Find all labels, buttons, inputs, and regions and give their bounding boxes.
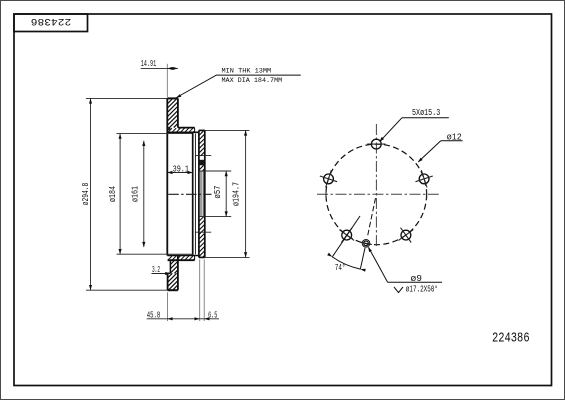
label d12 arrow [418, 158, 423, 163]
svg-text:224386: 224386 [31, 15, 71, 27]
label d9 underline [388, 281, 442, 283]
web strip hatch (top) [168, 128, 172, 132]
bore dia57 top edge [199, 170, 231, 172]
leader min-max arrow [176, 94, 181, 98]
angle 74 arc [332, 257, 360, 269]
dim ext right [203, 259, 205, 321]
bolt circle quadrant tick right [426, 189, 428, 199]
dim dia294.8 line [90, 98, 92, 290]
svg-text:6.5: 6.5 [208, 310, 217, 320]
angle leg through lower-left hole [332, 216, 360, 257]
svg-text:ø9: ø9 [411, 274, 423, 284]
svg-text:MAX DIA 184.7MM: MAX DIA 184.7MM [222, 77, 283, 85]
centerline horizontal [317, 193, 439, 195]
label d9 leader [369, 248, 388, 283]
web strip bottom edge [167, 131, 199, 133]
angle arc arrow 2 [360, 269, 365, 272]
bore wall line b [202, 171, 204, 217]
label 5xd15.3 arrow [379, 137, 384, 142]
flange hatch seg3 [199, 217, 203, 221]
bolt hole lower-right (5x dia15.3) [401, 230, 411, 240]
dim dia57 arrow top [225, 171, 228, 176]
dim ext left [166, 292, 168, 321]
svg-text:ø17.2X50°: ø17.2X50° [406, 285, 438, 295]
web strip hatch (bottom) [168, 256, 172, 260]
dim 39.1 arrow right [188, 171, 193, 174]
dim dia57 line [225, 171, 227, 217]
rim right edge bottom [177, 256, 179, 291]
web strip lower bottom edge [168, 259, 195, 261]
svg-text:ø57: ø57 [213, 186, 223, 199]
angle leg through service hole (dashed upper) [368, 198, 376, 235]
dim 14.91 line [141, 67, 178, 69]
dim 39.1 arrow left [167, 171, 172, 174]
bore dia57 bottom edge [199, 216, 231, 218]
dim 14.91 ext line [166, 64, 168, 97]
flange bottom edge [199, 256, 205, 258]
label 5xd15.3 leader [381, 118, 402, 141]
dim dia184 arrow bottom [119, 249, 122, 254]
rim bottom edge [168, 289, 178, 291]
svg-text:224386: 224386 [492, 330, 530, 346]
svg-text:ø184: ø184 [108, 186, 118, 202]
dim 14.91 arrow left [167, 67, 172, 70]
rim section hatch bottom b [168, 273, 172, 277]
dim 6.5 arrow [204, 317, 209, 320]
angle arc arrow 1 [327, 253, 332, 257]
dim ext mid [199, 259, 201, 321]
dim 45.8/6.5 line [147, 318, 219, 320]
service hole dia9 outer (countersink 17.2) [362, 240, 370, 248]
label d12 underline [441, 140, 463, 142]
flange bottom extension [205, 256, 250, 258]
bolt hole top (5x dia15.3) [371, 139, 381, 149]
wire top edge extension [86, 97, 167, 99]
flange top extension [205, 129, 250, 131]
rim inner step (top) [168, 127, 171, 130]
rim left edge bottom [167, 273, 169, 290]
dim 3.2 leader [152, 273, 171, 275]
drum left outer edge [166, 98, 168, 255]
hub back wall second line [194, 134, 196, 255]
countersink symbol [394, 287, 403, 293]
dim dia184 line [119, 134, 121, 255]
rim step horizontal [168, 272, 171, 274]
bolt hole centerline upper [195, 155, 211, 157]
web strip right edge [194, 128, 196, 133]
flange top edge [199, 129, 205, 131]
dim 45.8 arrow right [195, 317, 200, 320]
dim dia161 arrow bottom [142, 242, 145, 247]
dim dia194.7 arrow top [244, 130, 247, 135]
rim section hatch (top) [168, 99, 172, 103]
svg-text:MIN THK 13MM: MIN THK 13MM [222, 67, 272, 75]
leader min-max line [177, 75, 301, 97]
dim dia194.7 line [245, 130, 247, 257]
svg-text:ø12: ø12 [447, 133, 462, 143]
dim dia161 arrow top [142, 141, 145, 146]
bolt hole upper-right (5x dia15.3) [419, 174, 429, 184]
rim step vertical (3.2) [169, 260, 171, 273]
svg-text:ø194.7: ø194.7 [232, 182, 242, 206]
web strip lower right edge [194, 256, 196, 261]
bolt hole lower-left (5x dia15.3) [342, 230, 352, 240]
flange solid block [200, 160, 205, 166]
dim dia294.8 arrow bottom [89, 285, 92, 290]
dim 45.8 arrow left [167, 317, 172, 320]
title box [14, 14, 88, 32]
wire bottom edge extension [86, 289, 168, 291]
dim dia194.7 arrow bottom [244, 252, 247, 257]
svg-text:14.91: 14.91 [141, 59, 157, 69]
label d12 leader [418, 141, 440, 162]
dim dia294.8 arrow top [89, 98, 92, 103]
svg-text:ø161: ø161 [131, 186, 141, 202]
flange left face [198, 130, 200, 257]
svg-text:3.2: 3.2 [152, 265, 160, 275]
bore wall line a [200, 171, 202, 217]
flange hatch seg2 [199, 165, 203, 169]
bolt hole centerline lower [195, 231, 211, 233]
surface dia184 bottom line [117, 253, 193, 255]
dim 3.2 arrow [165, 272, 170, 275]
service hole marks [360, 242, 372, 244]
svg-text:ø294.8: ø294.8 [81, 183, 91, 206]
label 5xd15.3 underline [402, 117, 449, 119]
bolt circle quadrant tick left [325, 189, 327, 199]
flange mounting face [204, 130, 206, 257]
rim right edge top [177, 98, 179, 127]
service hole dia9 inner [364, 241, 369, 246]
angle leg through service hole (lower) [360, 248, 365, 269]
dim dia184 arrow top [119, 134, 122, 139]
web strip lower top edge [167, 255, 199, 257]
dim 39.1 line [167, 172, 192, 174]
svg-text:74°: 74° [335, 263, 346, 273]
label d9 arrow [368, 247, 372, 252]
svg-text:45.8: 45.8 [147, 310, 161, 320]
svg-text:39.1: 39.1 [173, 164, 189, 174]
bolt circle (dashed) [326, 144, 427, 245]
dim 14.91 arrow right [173, 67, 178, 70]
dim dia161 line [143, 141, 145, 247]
web strip top edge [178, 127, 195, 129]
svg-text:5Xø15.3: 5Xø15.3 [412, 108, 440, 118]
rim top edge [167, 97, 178, 99]
bolt hole upper-left (5x dia15.3) [324, 174, 334, 184]
dim dia57 arrow bottom [225, 211, 228, 216]
section centerline (left view) [168, 193, 211, 195]
flange hatch seg1 [199, 131, 203, 135]
centerline vertical [375, 124, 377, 249]
hub back wall inner face [192, 132, 194, 255]
surface dia184 top line [117, 133, 193, 135]
rim section hatch bottom a [170, 260, 174, 264]
